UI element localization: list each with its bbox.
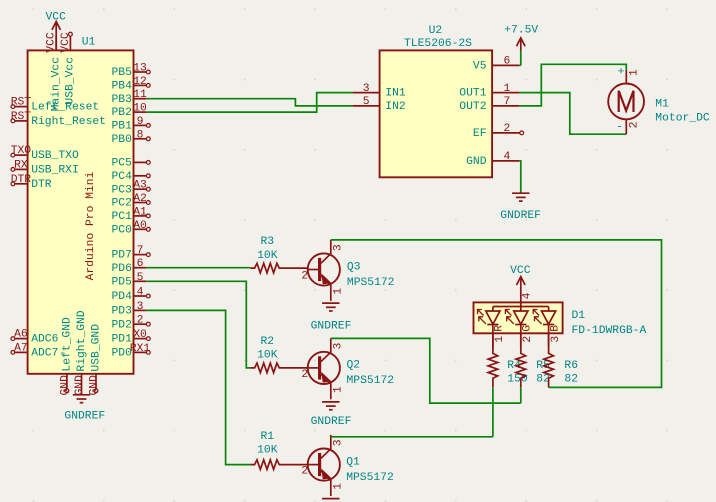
svg-text:PC4: PC4 bbox=[111, 171, 132, 183]
svg-text:VCC: VCC bbox=[510, 265, 531, 277]
svg-text:Main_Vcc: Main_Vcc bbox=[50, 57, 62, 111]
svg-text:MPS5172: MPS5172 bbox=[347, 277, 395, 289]
svg-text:Right_Reset: Right_Reset bbox=[31, 116, 106, 128]
svg-text:6: 6 bbox=[503, 56, 510, 68]
svg-text:7: 7 bbox=[503, 96, 510, 108]
U1 pin PC1 number A1 bbox=[134, 215, 147, 217]
svg-text:VCC: VCC bbox=[60, 32, 72, 53]
svg-text:PD2: PD2 bbox=[111, 319, 131, 331]
svg-text:4: 4 bbox=[137, 287, 144, 299]
power +7.5V above U2 bbox=[520, 38, 522, 51]
svg-text:RX: RX bbox=[14, 159, 28, 171]
resistor R5 82 bbox=[516, 333, 526, 387]
svg-text:10K: 10K bbox=[257, 350, 278, 362]
svg-text:10: 10 bbox=[133, 103, 147, 115]
wire U2 GND pin to ground bbox=[519, 161, 520, 193]
svg-text:PC1: PC1 bbox=[111, 211, 132, 223]
svg-text:X0: X0 bbox=[133, 329, 147, 341]
svg-text:Motor_DC: Motor_DC bbox=[655, 113, 710, 125]
wire R4 bottom to Q1 net bbox=[492, 387, 494, 436]
svg-text:TXO: TXO bbox=[11, 145, 32, 157]
U1 pin PB2 number 10 bbox=[134, 111, 147, 113]
D1 led element G bbox=[520, 307, 522, 312]
U1 pin Left_Reset number RST bbox=[15, 106, 28, 108]
driver U2 TLE5206-2S body bbox=[380, 50, 493, 177]
svg-text:M1: M1 bbox=[655, 98, 669, 110]
svg-text:3: 3 bbox=[363, 83, 370, 95]
svg-text:PD4: PD4 bbox=[111, 291, 132, 303]
resistor R4 150 bbox=[488, 333, 498, 387]
wire Q3 collector to R6 net bbox=[331, 240, 662, 388]
svg-text:PD3: PD3 bbox=[111, 306, 132, 318]
U1 pin PB1 number 9 bbox=[134, 124, 147, 126]
svg-text:6: 6 bbox=[137, 258, 144, 270]
svg-text:U1: U1 bbox=[82, 37, 96, 49]
svg-text:82: 82 bbox=[564, 374, 578, 386]
svg-text:USB_GND: USB_GND bbox=[91, 324, 103, 372]
svg-text:A3: A3 bbox=[133, 180, 147, 192]
svg-text:V5: V5 bbox=[473, 61, 487, 73]
svg-text:PC3: PC3 bbox=[111, 184, 132, 196]
U1 pin PD2 number 2 bbox=[134, 323, 147, 325]
U1 pin PD3 number 3 bbox=[134, 309, 147, 311]
svg-text:B: B bbox=[549, 325, 561, 332]
svg-text:GND: GND bbox=[74, 375, 86, 396]
svg-text:11: 11 bbox=[133, 89, 147, 101]
wire V5 to +7.5V bbox=[519, 51, 520, 66]
U1 pin Right_GND number GND bbox=[81, 374, 83, 395]
svg-text:10K: 10K bbox=[257, 444, 278, 456]
svg-text:A6: A6 bbox=[14, 329, 28, 341]
U1 pin USB_GND number GND bbox=[95, 374, 97, 389]
U1 pin PC4 bbox=[134, 175, 147, 177]
ground GNDREF under Q1 bbox=[322, 498, 339, 500]
svg-text:4: 4 bbox=[522, 292, 534, 299]
svg-text:PC2: PC2 bbox=[111, 198, 131, 210]
svg-text:Q1: Q1 bbox=[346, 456, 360, 468]
U1 pin Left_GND number GND bbox=[66, 374, 68, 389]
svg-text:2: 2 bbox=[522, 336, 534, 343]
U1 pin ADC6 number A6 bbox=[15, 338, 28, 340]
svg-text:VCC: VCC bbox=[45, 12, 66, 24]
U1 pin PD5 number 5 bbox=[134, 280, 147, 282]
U1 pin ADC7 number A7 bbox=[15, 351, 28, 353]
svg-text:PC0: PC0 bbox=[111, 224, 132, 236]
svg-text:R: R bbox=[494, 325, 506, 332]
svg-text:ADC6: ADC6 bbox=[31, 334, 58, 346]
U2 pin OUT1 number 1 bbox=[492, 92, 519, 94]
svg-text:G: G bbox=[522, 325, 534, 332]
svg-text:GNDREF: GNDREF bbox=[311, 320, 352, 332]
U2 pin GND number 4 bbox=[492, 160, 519, 162]
svg-text:3: 3 bbox=[333, 439, 345, 446]
svg-text:1: 1 bbox=[333, 483, 345, 490]
wire PD5 to R2 bbox=[146, 281, 250, 368]
svg-text:A0: A0 bbox=[133, 220, 147, 232]
svg-text:9: 9 bbox=[137, 116, 144, 128]
U2 pin IN2 number 5 bbox=[353, 105, 380, 107]
svg-text:R6: R6 bbox=[564, 360, 578, 372]
svg-text:TLE5206-2S: TLE5206-2S bbox=[404, 38, 472, 50]
U1 pin PB3 number 11 bbox=[134, 98, 147, 100]
motor M1 Motor_DC bbox=[608, 84, 644, 120]
svg-text:1: 1 bbox=[503, 83, 510, 95]
wire Q2 collector to R5 net bbox=[331, 338, 521, 403]
svg-text:PB0: PB0 bbox=[111, 134, 132, 146]
U1 pin USB_RXI number RX bbox=[15, 168, 28, 170]
transistor Q2 MPS5172 bbox=[308, 352, 340, 384]
svg-text:RX1: RX1 bbox=[130, 343, 151, 355]
led D1 FD-1DWRGB-A body bbox=[474, 302, 563, 333]
U1 pin PC0 number A0 bbox=[134, 228, 147, 230]
svg-text:Right_GND: Right_GND bbox=[76, 310, 88, 371]
svg-text:Q2: Q2 bbox=[347, 360, 361, 372]
svg-text:PD7: PD7 bbox=[111, 250, 131, 262]
svg-text:R3: R3 bbox=[260, 236, 274, 248]
svg-text:A7: A7 bbox=[14, 342, 28, 354]
svg-text:PB5: PB5 bbox=[111, 67, 132, 79]
svg-text:PB3: PB3 bbox=[111, 94, 132, 106]
svg-text:2: 2 bbox=[301, 270, 308, 282]
wire OUT2 to motor pin 1 bbox=[519, 64, 626, 106]
svg-text:5: 5 bbox=[363, 96, 370, 108]
U1 pin PC3 number A3 bbox=[134, 188, 147, 190]
U1 pin Main_Vcc number VCC bbox=[55, 36, 57, 51]
svg-text:A2: A2 bbox=[133, 193, 147, 205]
svg-text:GND: GND bbox=[89, 375, 101, 396]
svg-text:RST: RST bbox=[11, 111, 32, 123]
ground GNDREF under Q3 bbox=[322, 302, 339, 304]
U2 pin IN1 number 3 bbox=[353, 92, 380, 94]
wire R5 bottom to Q2 net bbox=[520, 387, 522, 403]
svg-text:2: 2 bbox=[137, 315, 144, 327]
svg-text:OUT2: OUT2 bbox=[459, 101, 486, 113]
svg-text:1: 1 bbox=[333, 288, 345, 295]
svg-text:10K: 10K bbox=[257, 250, 278, 262]
svg-text:ADC7: ADC7 bbox=[31, 348, 58, 360]
svg-text:PB2: PB2 bbox=[111, 107, 131, 119]
svg-text:2: 2 bbox=[301, 466, 308, 478]
svg-text:3: 3 bbox=[137, 301, 144, 313]
U1 pin PD4 number 4 bbox=[134, 295, 147, 297]
ground GNDREF under U1 bbox=[73, 394, 90, 396]
U2 pin EF number 2 bbox=[492, 132, 520, 134]
svg-text:1: 1 bbox=[629, 69, 641, 76]
U1 pin PB0 number 8 bbox=[134, 138, 147, 140]
svg-text:Q3: Q3 bbox=[347, 261, 361, 273]
U2 pin OUT2 number 7 bbox=[492, 105, 519, 107]
U1 pin PD6 number 6 bbox=[134, 267, 147, 269]
D1 pin 4 bbox=[520, 302, 522, 306]
U1 pin PD7 number 7 bbox=[134, 254, 147, 256]
wire PB2 to IN1 bbox=[146, 93, 352, 113]
resistor R3 10K bbox=[250, 263, 307, 273]
resistor R1 10K bbox=[250, 460, 307, 470]
svg-text:FD-1DWRGB-A: FD-1DWRGB-A bbox=[572, 325, 647, 337]
resistor R6 82 bbox=[544, 333, 554, 387]
D1 led element R bbox=[492, 307, 494, 312]
wire PD3 to R1 bbox=[146, 310, 250, 464]
U2 pin V5 number 6 bbox=[492, 64, 519, 66]
svg-text:1: 1 bbox=[494, 336, 506, 343]
svg-text:MPS5172: MPS5172 bbox=[347, 375, 395, 387]
svg-text:2: 2 bbox=[503, 123, 510, 135]
svg-text:13: 13 bbox=[133, 63, 147, 75]
svg-text:USB_RXI: USB_RXI bbox=[31, 165, 79, 177]
U1 pin PB4 number 12 bbox=[134, 84, 147, 86]
svg-text:+7.5V: +7.5V bbox=[504, 25, 538, 37]
svg-text:A1: A1 bbox=[133, 206, 147, 218]
wire Q1 collector to R4 net bbox=[331, 436, 493, 438]
svg-text:DTR: DTR bbox=[31, 179, 52, 191]
D1 led element B bbox=[548, 307, 550, 312]
svg-text:7: 7 bbox=[137, 245, 144, 257]
wire PB3 to IN2 bbox=[146, 99, 352, 106]
svg-text:MPS5172: MPS5172 bbox=[346, 472, 394, 484]
transistor Q1 MPS5172 bbox=[308, 449, 340, 481]
U1 pin Right_Reset number RST bbox=[15, 120, 28, 122]
svg-text:R2: R2 bbox=[260, 336, 274, 348]
svg-text:Left_GND: Left_GND bbox=[61, 317, 73, 372]
svg-text:+: + bbox=[618, 67, 625, 79]
svg-text:PB1: PB1 bbox=[111, 121, 132, 133]
D1 pin 1 bbox=[492, 333, 494, 347]
U1 pin PD0 number RX1 bbox=[134, 351, 147, 353]
svg-text:4: 4 bbox=[503, 151, 510, 163]
svg-text:IN1: IN1 bbox=[385, 88, 406, 100]
svg-text:USB_TXO: USB_TXO bbox=[31, 150, 79, 162]
svg-text:PD6: PD6 bbox=[111, 263, 132, 275]
svg-text:OUT1: OUT1 bbox=[459, 88, 486, 100]
mcu U1 Arduino Pro Mini body bbox=[28, 50, 134, 373]
svg-text:PD5: PD5 bbox=[111, 276, 132, 288]
svg-text:GNDREF: GNDREF bbox=[64, 410, 105, 422]
U1 pin USB_TXO number TXO bbox=[15, 154, 28, 156]
svg-text:5: 5 bbox=[137, 272, 144, 284]
svg-text:RST: RST bbox=[11, 97, 32, 109]
svg-text:USB_Vcc: USB_Vcc bbox=[65, 57, 77, 105]
U1 pin PB5 number 13 bbox=[134, 71, 147, 73]
svg-text:D1: D1 bbox=[572, 310, 586, 322]
D1 anode bus bbox=[493, 306, 549, 308]
svg-text:U2: U2 bbox=[429, 25, 443, 37]
power VCC above D1 bbox=[520, 277, 522, 303]
U1 pin PD1 number X0 bbox=[134, 338, 147, 340]
ground GNDREF under Q2 bbox=[322, 401, 339, 403]
svg-text:3: 3 bbox=[333, 343, 345, 350]
svg-text:PC5: PC5 bbox=[111, 158, 132, 170]
resistor R2 10K bbox=[250, 363, 307, 373]
power VCC at U1 top bbox=[55, 22, 57, 51]
svg-text:PB4: PB4 bbox=[111, 81, 132, 93]
svg-text:PD0: PD0 bbox=[111, 348, 132, 360]
svg-text:IN2: IN2 bbox=[385, 101, 405, 113]
svg-text:2: 2 bbox=[301, 369, 308, 381]
svg-text:GNDREF: GNDREF bbox=[500, 210, 541, 222]
svg-text:2: 2 bbox=[629, 122, 641, 129]
transistor Q3 MPS5172 bbox=[308, 253, 340, 285]
U1 pin PC5 bbox=[134, 161, 147, 163]
svg-text:3: 3 bbox=[550, 336, 562, 343]
svg-text:8: 8 bbox=[137, 129, 144, 141]
wire OUT1 to motor pin 2 bbox=[519, 93, 626, 135]
svg-text:GND: GND bbox=[466, 156, 487, 168]
svg-text:12: 12 bbox=[133, 76, 147, 88]
D1 pin 3 bbox=[548, 333, 550, 347]
svg-text:DTR: DTR bbox=[11, 174, 32, 186]
U1 pin USB_Vcc number VCC bbox=[69, 36, 71, 50]
wire PD6 to R3 bbox=[146, 267, 250, 269]
svg-text:EF: EF bbox=[473, 128, 487, 140]
U1 pin DTR number DTR bbox=[15, 183, 28, 185]
ground GNDREF under U2 bbox=[512, 192, 529, 194]
svg-text:1: 1 bbox=[333, 386, 345, 393]
svg-text:3: 3 bbox=[333, 244, 345, 251]
svg-text:GNDREF: GNDREF bbox=[311, 416, 352, 428]
svg-text:R1: R1 bbox=[260, 431, 274, 443]
D1 pin 2 bbox=[520, 333, 522, 347]
svg-text:GND: GND bbox=[59, 375, 71, 396]
U1 pin PC2 number A2 bbox=[134, 202, 147, 204]
svg-text:Arduino Pro Mini: Arduino Pro Mini bbox=[85, 171, 97, 280]
svg-text:-: - bbox=[616, 122, 623, 134]
